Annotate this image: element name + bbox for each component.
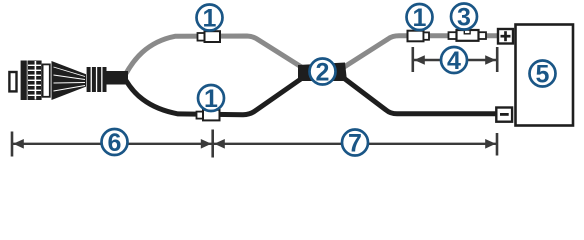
connector plug: front tip (9, 72, 16, 91)
callout 1 (right band) (407, 4, 433, 32)
callout 7 (dimension) (342, 130, 368, 158)
dimension line 7 (213, 130, 497, 158)
callout 1 (lower-left band) (198, 85, 224, 113)
wire: negative lead lower-left (black) (126, 78, 303, 115)
svg-text:3: 3 (457, 4, 471, 32)
svg-text:6: 6 (108, 129, 122, 157)
connector plug: segmented rings (87, 67, 107, 92)
inline fuse holder (3) (449, 30, 487, 41)
svg-text:5: 5 (536, 61, 550, 89)
callout 1 (upper-left band) (197, 5, 223, 33)
splice junction bar (node 2) (298, 63, 347, 82)
battery (5) (516, 25, 574, 126)
negative terminal (-) (496, 108, 512, 122)
dimension line 4 (413, 47, 497, 72)
svg-text:7: 7 (348, 130, 362, 158)
label band 1 on lower-left black wire (197, 110, 220, 121)
callout 6 (dimension) (102, 129, 128, 157)
label band 1 on right grey wire (408, 31, 430, 42)
svg-text:1: 1 (203, 5, 217, 33)
svg-text:1: 1 (413, 4, 427, 32)
dimension line 6 (12, 132, 212, 157)
callout 3 (fuse) (451, 4, 477, 32)
label band 1 on upper-left grey wire (198, 31, 221, 42)
connector plug: collar (43, 64, 50, 96)
svg-text:2: 2 (316, 59, 330, 87)
connector plug: tapered strain relief (52, 61, 87, 100)
connector plug: flange (21, 61, 27, 101)
connector plug: knurled ring (28, 61, 42, 101)
wire: negative lead to battery (black) (341, 76, 497, 114)
callout 2 (splice) (310, 59, 336, 87)
svg-text:1: 1 (204, 85, 218, 113)
callout 4 (dimension) (441, 47, 467, 75)
svg-text:4: 4 (447, 47, 461, 75)
positive terminal (+) (498, 29, 513, 44)
wire: positive lead upper-left (grey) (126, 36, 303, 74)
wire: positive lead to fuse (grey) (341, 36, 498, 69)
connector plug: cable stub (107, 71, 129, 85)
callout 5 (battery) (530, 61, 556, 89)
